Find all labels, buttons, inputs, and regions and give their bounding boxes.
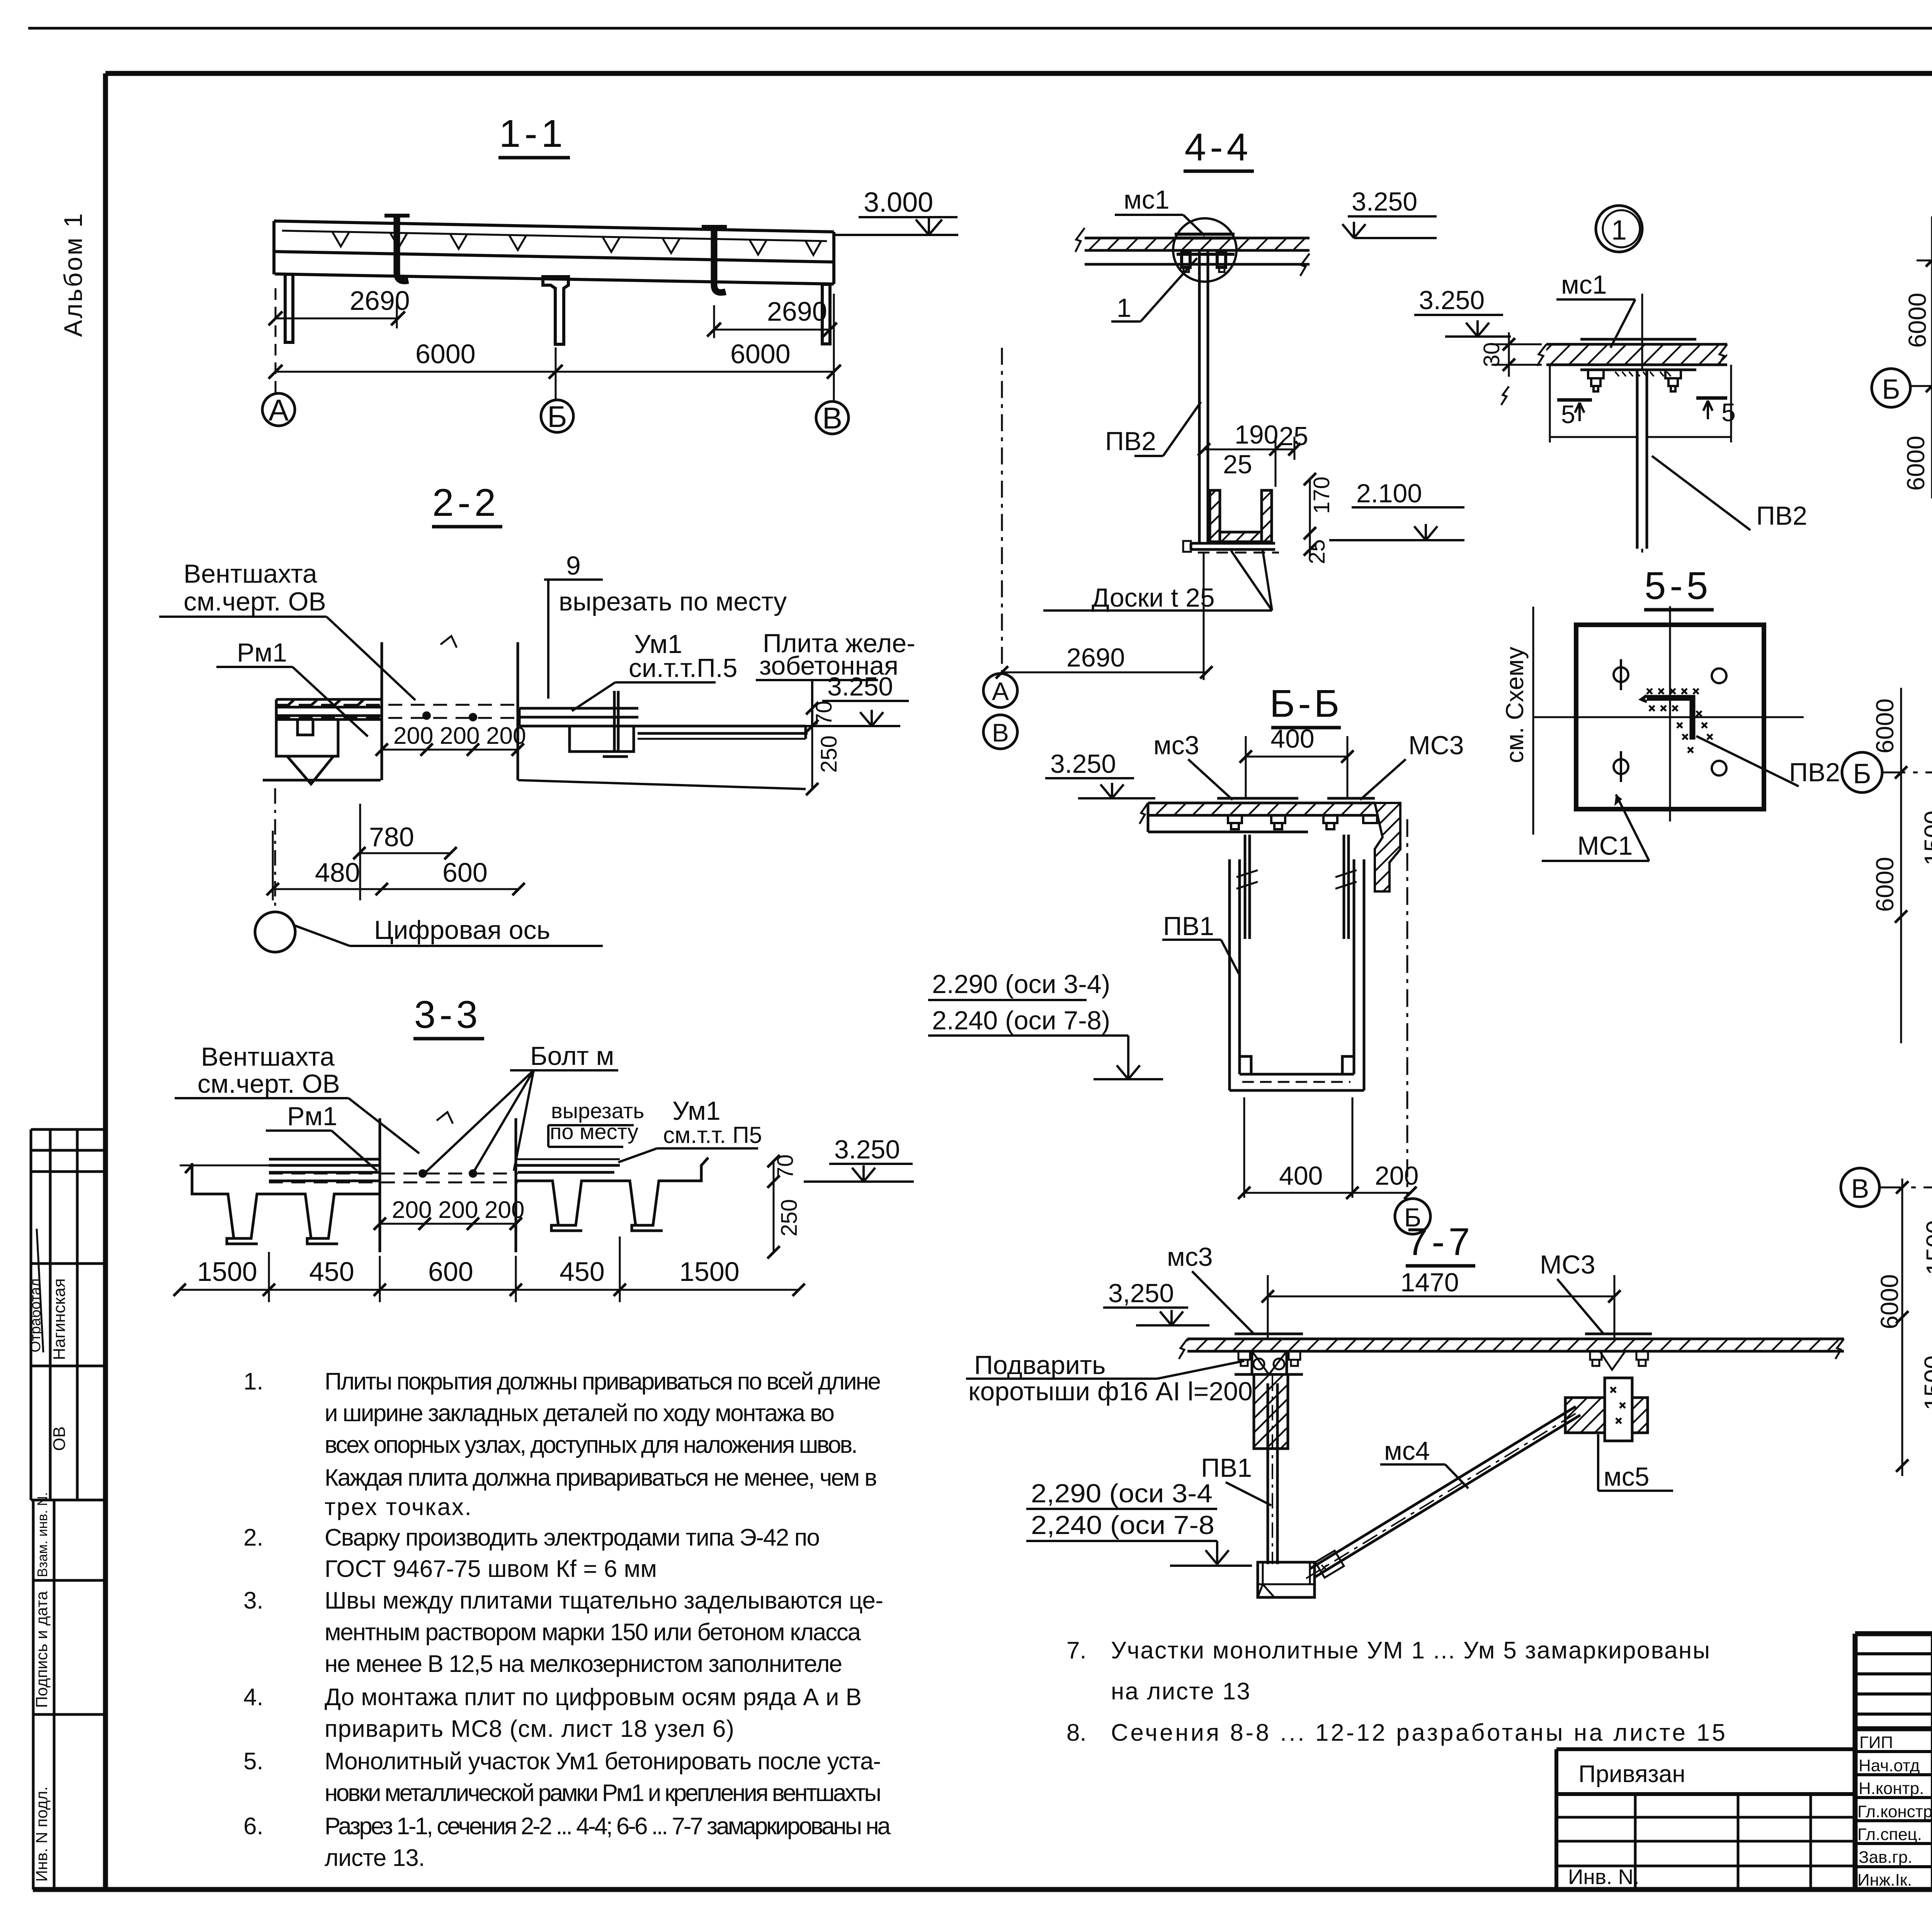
svg-text:см. Схему: см. Схему <box>1501 647 1529 763</box>
svg-text:70: 70 <box>811 701 837 726</box>
svg-text:2.: 2. <box>243 1524 264 1551</box>
svg-text:мс4: мс4 <box>1384 1436 1430 1466</box>
svg-text:ПВ1: ПВ1 <box>1163 912 1214 941</box>
svg-text:6000: 6000 <box>1871 857 1899 912</box>
svg-text:мс3: мс3 <box>1167 1242 1213 1272</box>
svg-text:ОВ: ОВ <box>50 1426 69 1451</box>
svg-text:1500: 1500 <box>1919 1355 1932 1410</box>
svg-text:ПВ2: ПВ2 <box>1105 427 1156 456</box>
svg-text:Привязан: Привязан <box>1578 1761 1685 1787</box>
svg-text:2690: 2690 <box>350 286 410 316</box>
svg-text:Альбом 1: Альбом 1 <box>59 212 87 337</box>
svg-text:3.000: 3.000 <box>864 187 933 218</box>
svg-text:Участки монолитные УМ 1 ...: Участки монолитные УМ 1 ... Ум 5 замарки… <box>1111 1637 1710 1664</box>
svg-text:7.: 7. <box>1066 1637 1087 1664</box>
svg-text:3.: 3. <box>243 1587 264 1614</box>
svg-text:приварить МС8 (см. лист 18: приварить МС8 (см. лист 18 узел 6) <box>325 1716 734 1742</box>
svg-text:3.250: 3.250 <box>1050 749 1116 779</box>
svg-text:Зав.гр.: Зав.гр. <box>1859 1848 1912 1867</box>
svg-text:Нач.отд: Нач.отд <box>1859 1756 1920 1775</box>
svg-text:1470: 1470 <box>1400 1268 1459 1297</box>
svg-text:Подварить: Подварить <box>974 1350 1105 1380</box>
svg-text:Инв. N подл.: Инв. N подл. <box>32 1786 51 1882</box>
svg-text:В: В <box>1851 1173 1869 1204</box>
svg-text:1500: 1500 <box>1921 1220 1932 1275</box>
svg-text:8.: 8. <box>1066 1719 1087 1746</box>
svg-text:ПВ1: ПВ1 <box>1201 1453 1252 1483</box>
svg-text:9: 9 <box>566 551 581 580</box>
svg-text:мс1: мс1 <box>1561 270 1607 299</box>
svg-text:5: 5 <box>1561 400 1575 429</box>
svg-text:2,240 (оси 7-8: 2,240 (оси 7-8 <box>1031 1510 1214 1540</box>
svg-text:70: 70 <box>773 1154 798 1179</box>
svg-text:Сечения 8-8 ... 12-12 разраб: Сечения 8-8 ... 12-12 разработаны на лис… <box>1111 1719 1725 1746</box>
svg-text:Гл.констр: Гл.констр <box>1857 1802 1932 1821</box>
svg-text:200: 200 <box>1375 1161 1418 1190</box>
svg-text:Б: Б <box>1882 374 1900 405</box>
svg-text:5: 5 <box>1721 398 1736 427</box>
svg-text:200: 200 <box>438 1197 478 1223</box>
svg-text:1500: 1500 <box>197 1257 257 1287</box>
svg-text:3-3: 3-3 <box>414 993 482 1036</box>
svg-text:Гл.спец.: Гл.спец. <box>1857 1825 1922 1844</box>
svg-text:Н.контр.: Н.контр. <box>1859 1779 1924 1798</box>
svg-text:Цифровая ось: Цифровая ось <box>374 915 550 945</box>
svg-text:В: В <box>822 401 842 435</box>
svg-text:Б: Б <box>1853 759 1871 789</box>
svg-text:А: А <box>992 677 1009 706</box>
svg-text:1500: 1500 <box>1919 811 1932 866</box>
svg-text:не менее В 12,5 на мелкозерн: не менее В 12,5 на мелкозернистом заполн… <box>325 1651 842 1677</box>
svg-text:см.т.т. П5: см.т.т. П5 <box>663 1122 762 1148</box>
svg-text:Болт м: Болт м <box>530 1041 614 1071</box>
svg-text:3.250: 3.250 <box>827 672 893 701</box>
svg-text:7-7: 7-7 <box>1406 1220 1474 1264</box>
svg-text:Нагинская: Нагинская <box>50 1278 69 1360</box>
svg-text:6000: 6000 <box>1871 699 1899 753</box>
svg-text:3.250: 3.250 <box>1419 286 1485 315</box>
svg-text:мс1: мс1 <box>1124 185 1170 214</box>
svg-text:коротыши ф16 АI l=200: коротыши ф16 АI l=200 <box>968 1377 1253 1406</box>
svg-text:1-1: 1-1 <box>499 112 567 155</box>
svg-text:170: 170 <box>1309 476 1334 514</box>
svg-text:Рм1: Рм1 <box>287 1102 337 1131</box>
svg-text:МС1: МС1 <box>1577 831 1633 861</box>
svg-text:Сварку производить электрода: Сварку производить электродами типа Э-42… <box>325 1524 820 1551</box>
svg-text:мс5: мс5 <box>1604 1462 1650 1492</box>
svg-text:всех опорных узлах, доступны: всех опорных узлах, доступных для наложе… <box>325 1432 858 1458</box>
svg-text:6000: 6000 <box>1903 293 1931 348</box>
svg-text:1500: 1500 <box>679 1257 740 1287</box>
svg-text:3.250: 3.250 <box>1352 187 1417 216</box>
svg-text:600: 600 <box>428 1257 473 1287</box>
svg-text:Вентшахта: Вентшахта <box>201 1042 335 1071</box>
svg-text:МС3: МС3 <box>1408 731 1464 760</box>
svg-text:600: 600 <box>442 857 488 888</box>
svg-text:200: 200 <box>392 1197 432 1223</box>
svg-text:4.: 4. <box>243 1684 264 1711</box>
svg-text:Доски t 25: Доски t 25 <box>1092 583 1215 612</box>
svg-text:3.250: 3.250 <box>834 1135 900 1164</box>
svg-text:25: 25 <box>1223 450 1252 479</box>
svg-text:Ум1: Ум1 <box>672 1096 721 1126</box>
svg-text:Плиты покрытия должны прива: Плиты покрытия должны привариваться по в… <box>325 1368 881 1395</box>
svg-text:Рм1: Рм1 <box>237 638 287 667</box>
svg-text:200: 200 <box>440 723 480 749</box>
svg-text:190: 190 <box>1235 420 1278 449</box>
svg-text:450: 450 <box>309 1257 354 1287</box>
svg-text:2,290 (оси 3-4: 2,290 (оси 3-4 <box>1031 1479 1213 1508</box>
svg-text:ГОСТ 9467-75 швом Кf = 6 мм: ГОСТ 9467-75 швом Кf = 6 мм <box>325 1556 657 1582</box>
svg-text:Каждая плита должна привари: Каждая плита должна привариваться не мен… <box>325 1464 877 1491</box>
svg-text:Разрез 1-1, сечения 2-2 ... 4: Разрез 1-1, сечения 2-2 ... 4-4; 6-6 ...… <box>325 1813 891 1840</box>
svg-text:см.черт. ОВ: см.черт. ОВ <box>184 587 326 616</box>
svg-text:5-5: 5-5 <box>1645 564 1712 607</box>
svg-text:5.: 5. <box>243 1748 264 1775</box>
svg-text:ГИП: ГИП <box>1859 1733 1893 1752</box>
svg-text:Подпись и дата: Подпись и дата <box>32 1591 51 1708</box>
svg-text:400: 400 <box>1279 1161 1323 1190</box>
svg-text:200: 200 <box>393 723 433 749</box>
svg-text:450: 450 <box>560 1257 605 1287</box>
svg-text:400: 400 <box>1270 724 1314 753</box>
svg-text:2-2: 2-2 <box>432 481 500 524</box>
svg-text:25: 25 <box>1304 539 1330 564</box>
svg-text:200: 200 <box>486 723 526 749</box>
svg-text:на листе 13: на листе 13 <box>1111 1678 1250 1705</box>
svg-text:6000: 6000 <box>730 339 791 369</box>
svg-text:2690: 2690 <box>767 296 827 327</box>
svg-text:2690: 2690 <box>1066 643 1125 672</box>
svg-text:А: А <box>269 393 289 427</box>
svg-text:780: 780 <box>369 822 414 852</box>
svg-text:1.: 1. <box>243 1368 264 1395</box>
svg-text:Инж.Iк.: Инж.Iк. <box>1857 1871 1912 1889</box>
svg-text:Швы между плитами тщательно: Швы между плитами тщательно заделываются… <box>325 1587 883 1614</box>
svg-text:мс3: мс3 <box>1153 731 1199 760</box>
svg-text:2.290 (оси 3-4): 2.290 (оси 3-4) <box>932 969 1110 999</box>
svg-text:новки металлической рамки Р: новки металлической рамки Рм1 и креплени… <box>325 1780 881 1806</box>
svg-text:2.100: 2.100 <box>1356 479 1422 508</box>
svg-text:вырезать по месту: вырезать по месту <box>559 587 787 616</box>
svg-text:1: 1 <box>1611 215 1627 246</box>
svg-text:3,250: 3,250 <box>1108 1279 1174 1308</box>
svg-text:Инв. N.: Инв. N. <box>1568 1865 1639 1889</box>
svg-text:6000: 6000 <box>415 339 476 369</box>
svg-text:по месту: по месту <box>550 1119 638 1144</box>
svg-text:ментным раствором марки 150: ментным раствором марки 150 или бетоном … <box>325 1619 861 1646</box>
svg-text:250: 250 <box>777 1199 802 1236</box>
svg-text:листе 13.: листе 13. <box>325 1845 425 1871</box>
svg-text:4-4: 4-4 <box>1185 126 1252 169</box>
svg-text:трех точках.: трех точках. <box>325 1494 471 1520</box>
svg-text:Взам. инв. N.: Взам. инв. N. <box>34 1492 50 1577</box>
svg-text:МС3: МС3 <box>1540 1250 1595 1279</box>
svg-text:200: 200 <box>485 1197 524 1223</box>
svg-text:1: 1 <box>1117 293 1131 323</box>
svg-text:30: 30 <box>1479 342 1504 367</box>
svg-text:Вентшахта: Вентшахта <box>184 559 317 588</box>
svg-text:Б-Б: Б-Б <box>1270 682 1343 725</box>
svg-text:В: В <box>992 718 1009 747</box>
svg-text:480: 480 <box>315 857 360 888</box>
svg-text:6.: 6. <box>243 1813 264 1840</box>
svg-text:си.т.т.П.5: си.т.т.П.5 <box>629 653 737 683</box>
svg-text:2.240 (оси 7-8): 2.240 (оси 7-8) <box>932 1006 1110 1035</box>
svg-text:Б: Б <box>547 400 567 434</box>
svg-text:До монтажа плит по цифровы: До монтажа плит по цифровым осям ряда А … <box>325 1684 862 1711</box>
svg-text:Монолитный участок Ум1 бето: Монолитный участок Ум1 бетонировать посл… <box>325 1748 881 1775</box>
svg-text:см.черт. ОВ: см.черт. ОВ <box>197 1069 340 1099</box>
svg-text:ПВ2: ПВ2 <box>1756 501 1807 531</box>
svg-text:и ширине закладных деталей: и ширине закладных деталей по ходу монта… <box>325 1400 835 1427</box>
svg-text:ПВ2: ПВ2 <box>1789 758 1840 787</box>
svg-text:6000: 6000 <box>1902 436 1930 491</box>
svg-text:250: 250 <box>816 735 842 773</box>
